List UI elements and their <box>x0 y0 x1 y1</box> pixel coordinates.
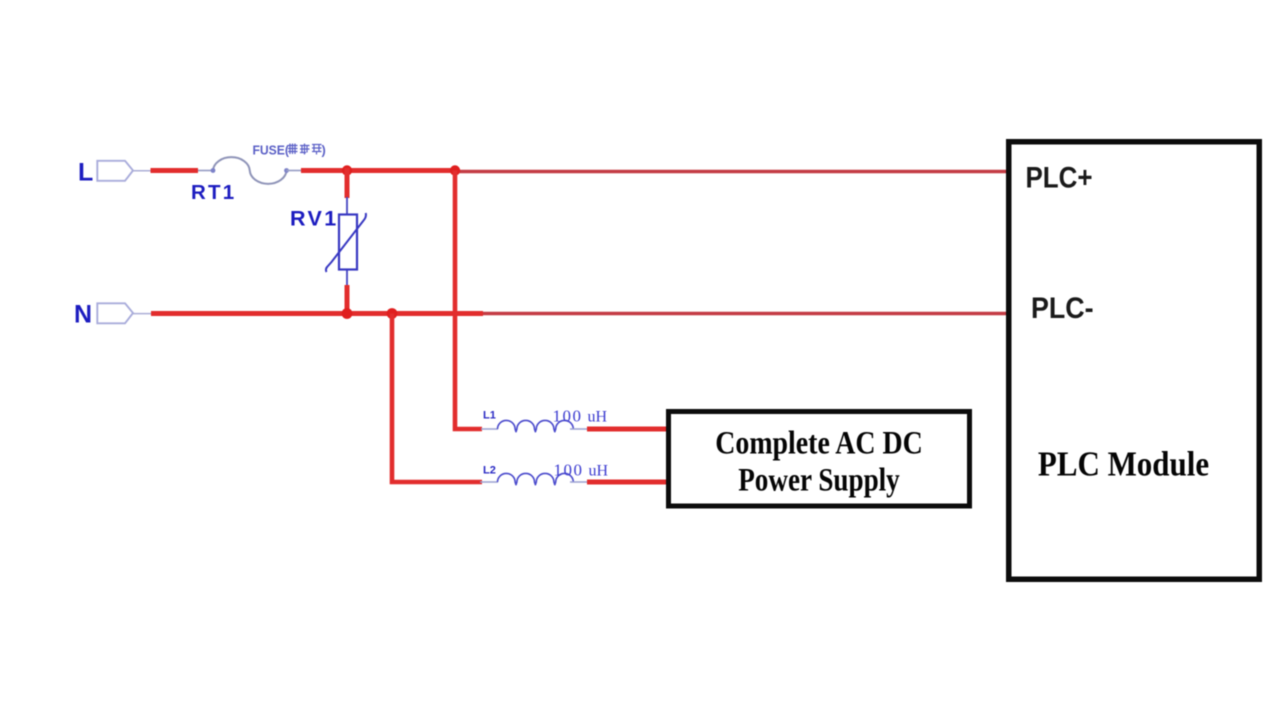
wire: L red segment to fuse <box>151 168 199 173</box>
wire: N long run to PLC- <box>483 312 1008 316</box>
varistor RV1 <box>326 197 366 286</box>
wire: RV1 top red lead <box>345 168 350 198</box>
wire: L1 red to power supply box <box>587 427 668 432</box>
terminal connector L <box>97 161 133 181</box>
wire: N red segment <box>151 311 483 316</box>
svg-text:N: N <box>74 301 92 329</box>
wire: vertical drop from junction B to L1 row <box>455 171 482 430</box>
svg-text:L2: L2 <box>483 465 496 477</box>
power supply box <box>669 412 970 507</box>
svg-text:): ) <box>322 143 326 158</box>
terminal connector N <box>97 303 133 323</box>
svg-text:Power Supply: Power Supply <box>738 462 900 498</box>
wire: L2 left pin <box>480 481 498 483</box>
svg-text:PLC Module: PLC Module <box>1038 446 1209 484</box>
fuse RT1 (slow-blow S-curve) <box>211 157 289 184</box>
wire: vertical drop from junction D to L2 row <box>392 314 482 483</box>
wire: fuse right pin <box>287 170 302 172</box>
svg-text:100uH: 100uH <box>554 461 609 480</box>
svg-text:100uH: 100uH <box>553 407 608 426</box>
junction node A (L / RV1) <box>342 165 352 175</box>
svg-text:PLC-: PLC- <box>1031 291 1094 324</box>
svg-text:L: L <box>78 159 93 187</box>
wire: RV1 bottom red lead <box>345 285 350 316</box>
wire: L2 red to power supply box <box>587 480 668 485</box>
junction node B (L / down-wire) <box>450 165 460 175</box>
wire: L1 right pin <box>570 428 588 430</box>
wire: N terminal lead <box>133 313 152 315</box>
junction node D (N / down-wire) <box>387 308 398 319</box>
svg-text:RT1: RT1 <box>191 181 236 204</box>
wire: L long run to PLC+ <box>455 170 1008 174</box>
svg-text:Complete AC DC: Complete AC DC <box>715 425 922 461</box>
wire: L terminal lead <box>133 170 151 172</box>
wire: L2 right pin <box>570 481 588 483</box>
svg-text:L1: L1 <box>483 410 496 422</box>
svg-text:PLC+: PLC+ <box>1026 161 1093 194</box>
svg-text:FUSE(: FUSE( <box>253 143 290 157</box>
wire: L1 left pin <box>481 428 498 430</box>
wire: L red segment fuse to junction B <box>301 168 457 173</box>
PLC module box <box>1009 142 1260 580</box>
inductor L1 <box>498 420 574 431</box>
inductor L2 <box>498 473 574 484</box>
svg-text:RV1: RV1 <box>290 207 339 231</box>
wire: fuse left pin <box>198 170 213 172</box>
fuse value label FUSE(慢断型) <box>253 143 326 158</box>
junction node C (N / RV1) <box>342 308 353 319</box>
